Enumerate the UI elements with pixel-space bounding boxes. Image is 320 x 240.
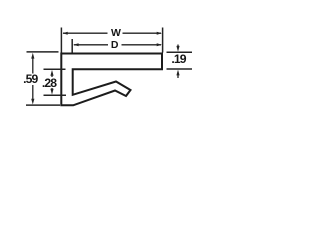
.19 extension lines (right) — [167, 52, 193, 69]
extension line W/D right (above bar) — [162, 28, 164, 53]
svg-text:D: D — [111, 39, 119, 51]
.28 extension lines (left of leg) — [44, 68, 66, 70]
svg-text:.19: .19 — [171, 52, 186, 66]
.28 dimension arrows — [51, 75, 53, 78]
W dimension line — [63, 32, 161, 34]
extension line W left (above bar) — [60, 28, 62, 53]
svg-text:W: W — [111, 27, 121, 39]
part outline: top bar with left leg and angled spring arm — [61, 54, 162, 106]
.59 dimension arrows — [32, 58, 34, 74]
.59 extension lines (left) — [27, 51, 59, 53]
D dimension line — [74, 44, 161, 46]
extension line D left — [71, 39, 73, 53]
.19 arrows — [177, 45, 179, 49]
svg-text:.59: .59 — [23, 72, 38, 86]
svg-text:.28: .28 — [42, 76, 57, 90]
